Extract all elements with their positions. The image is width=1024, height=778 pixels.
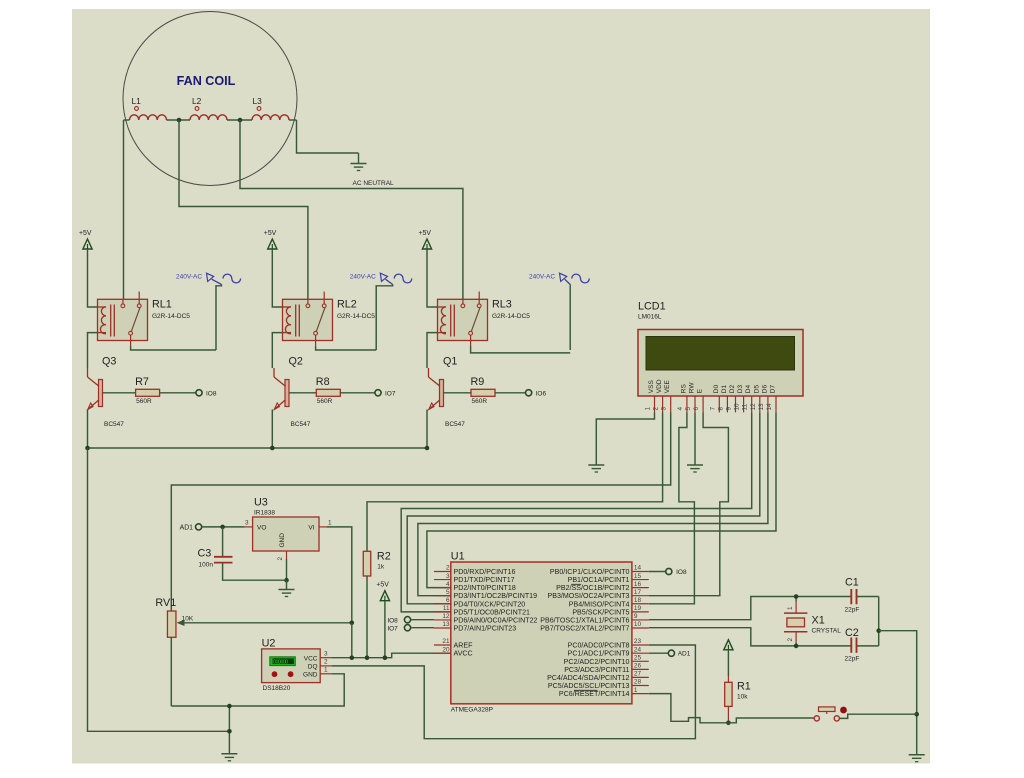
wire LCD D7 to PD2 — [427, 412, 776, 587]
svg-text:4: 4 — [677, 407, 684, 411]
svg-text:L2: L2 — [192, 96, 202, 106]
svg-text:240V-AC: 240V-AC — [529, 274, 555, 281]
svg-text:22pF: 22pF — [845, 607, 860, 614]
junction xtal2 node — [794, 644, 799, 649]
svg-text:1: 1 — [634, 687, 638, 694]
svg-text:560R: 560R — [317, 398, 333, 405]
svg-text:21: 21 — [442, 638, 450, 645]
R1 body — [725, 682, 732, 706]
svg-text:GND: GND — [279, 533, 286, 548]
svg-text:2: 2 — [446, 565, 450, 572]
wire LCD VEE line to RV1 — [171, 412, 670, 611]
svg-text:E: E — [697, 388, 704, 393]
svg-text:2: 2 — [324, 659, 328, 666]
svg-text:PB7/TOSC2/XTAL2/PCINT7: PB7/TOSC2/XTAL2/PCINT7 — [540, 624, 629, 632]
transistor Q1 BC547 — [440, 380, 444, 407]
svg-text:PC4/ADC4/SDA/PCINT12: PC4/ADC4/SDA/PCINT12 — [547, 674, 629, 682]
svg-text:20: 20 — [442, 646, 450, 653]
svg-text:BC547: BC547 — [291, 421, 311, 428]
svg-text:LM016L: LM016L — [638, 314, 662, 321]
ground bottom-right — [909, 754, 925, 756]
wire emitter bus — [88, 447, 429, 449]
wire LCD VSS to ground — [596, 412, 654, 465]
svg-text:PC6/RESET/PCINT14: PC6/RESET/PCINT14 — [559, 690, 630, 698]
svg-text:000000: 000000 — [273, 659, 288, 665]
relay RL2 core — [295, 305, 297, 337]
wire L3 to AC neutral — [297, 120, 359, 153]
fan coil circle — [123, 12, 297, 186]
svg-text:L3: L3 — [253, 96, 263, 106]
svg-text:D2: D2 — [729, 385, 736, 394]
junction bus +5V — [383, 655, 388, 660]
svg-text:IO8: IO8 — [387, 618, 398, 625]
svg-text:7: 7 — [709, 407, 716, 411]
svg-text:R8: R8 — [316, 376, 330, 388]
svg-text:8: 8 — [717, 407, 724, 411]
wire Q3 relay NO contact to 240V lead — [131, 346, 216, 350]
svg-text:AC NEUTRAL: AC NEUTRAL — [353, 180, 395, 187]
svg-text:3: 3 — [446, 573, 450, 580]
svg-text:16: 16 — [634, 581, 642, 588]
svg-text:PC2/ADC2/PCINT10: PC2/ADC2/PCINT10 — [564, 658, 630, 666]
svg-text:19: 19 — [634, 605, 642, 612]
svg-text:U2: U2 — [262, 638, 276, 650]
svg-text:RL2: RL2 — [337, 299, 357, 311]
svg-text:11: 11 — [742, 403, 749, 410]
junction rail/stem — [227, 729, 232, 734]
wire VI node down to +5V bus — [351, 623, 353, 658]
svg-text:PB5/SCK/PCINT5: PB5/SCK/PCINT5 — [572, 608, 629, 616]
svg-text:G2R-14-DC5: G2R-14-DC5 — [152, 313, 190, 320]
wire R1 top — [727, 650, 729, 676]
overline SS (PB2) — [572, 583, 582, 585]
svg-text:3: 3 — [661, 407, 668, 411]
svg-text:10k: 10k — [737, 694, 748, 701]
svg-text:15: 15 — [634, 573, 642, 580]
LCD1 LM016L body — [638, 330, 803, 397]
ground LCD RW — [687, 464, 703, 466]
wire L3 node to RL3 — [240, 120, 463, 299]
svg-text:11: 11 — [443, 605, 450, 612]
wire U3 VI down — [327, 527, 352, 623]
relay RL1 box — [98, 299, 148, 340]
svg-text:ATMEGA328P: ATMEGA328P — [451, 707, 493, 714]
svg-text:9: 9 — [634, 613, 638, 620]
svg-text:RS: RS — [680, 384, 687, 394]
svg-text:BC547: BC547 — [104, 421, 124, 428]
wire L1 left lead — [124, 119, 130, 121]
wire LCD RS to PB4 — [649, 412, 695, 603]
svg-text:PB6/TOSC1/XTAL1/PCINT6: PB6/TOSC1/XTAL1/PCINT6 — [540, 616, 629, 624]
svg-text:PC5/ADC5/SCL/PCINT13: PC5/ADC5/SCL/PCINT13 — [548, 682, 630, 690]
junction Q2 emitter — [270, 446, 275, 451]
svg-text:U1: U1 — [451, 551, 465, 563]
svg-text:D6: D6 — [761, 385, 768, 394]
wire left ground rail — [88, 448, 230, 731]
junction C3 tap — [220, 525, 225, 530]
+5V Q1 section — [422, 239, 431, 249]
inductor L2 — [190, 115, 227, 120]
svg-text:D5: D5 — [753, 385, 760, 394]
wire LCD E to PB3 — [649, 412, 729, 595]
svg-text:5: 5 — [685, 407, 692, 411]
svg-text:D7: D7 — [770, 385, 777, 394]
svg-text:AVCC: AVCC — [454, 650, 473, 658]
relay RL2 contacts — [306, 304, 310, 308]
svg-text:VDD: VDD — [656, 379, 663, 393]
svg-text:+5V: +5V — [419, 230, 432, 237]
relay RL2 box — [283, 299, 333, 340]
ground LCD VSS — [588, 464, 604, 466]
junction bus R2 — [365, 655, 370, 660]
svg-text:IR1838: IR1838 — [254, 510, 275, 517]
svg-text:L1: L1 — [132, 96, 142, 106]
svg-text:Q1: Q1 — [443, 356, 457, 368]
wire PB7 to crystal bottom — [649, 628, 851, 646]
svg-text:IO8: IO8 — [676, 569, 687, 576]
relay RL1 contacts — [121, 304, 125, 308]
wire Q1 relay coil to collector — [427, 333, 438, 368]
svg-text:PB0/ICP1/CLKO/PCINT0: PB0/ICP1/CLKO/PCINT0 — [550, 568, 630, 576]
relay RL3 coil — [440, 307, 446, 334]
junction U3 gnd / C3 — [284, 578, 289, 583]
wire U2 VCC bus to AVCC — [332, 653, 451, 658]
junction c-right node — [876, 628, 881, 633]
wire Q3 emitter to bus — [87, 410, 89, 449]
wire button to right rail — [839, 714, 916, 718]
wire R2 bottom to bus — [366, 576, 368, 658]
junction button node — [914, 712, 919, 717]
node AD1 (PC1) — [649, 652, 669, 654]
junction wiper/VI node — [350, 621, 355, 626]
junction L2/L3 node — [238, 118, 243, 123]
svg-text:D1: D1 — [721, 385, 728, 394]
svg-text:D0: D0 — [713, 385, 720, 394]
svg-text:PD4/T0/XCK/PCINT20: PD4/T0/XCK/PCINT20 — [454, 600, 526, 608]
junction bus VI — [350, 655, 355, 660]
svg-text:PB2/SS/OC1B/PCINT2: PB2/SS/OC1B/PCINT2 — [556, 584, 629, 592]
wire C3 bottom to U3 gnd — [223, 563, 287, 581]
RV1 wiper arrow — [183, 622, 352, 624]
ground AC NEUTRAL — [351, 163, 367, 165]
svg-text:CRYSTAL: CRYSTAL — [812, 628, 842, 635]
U2 display — [270, 657, 296, 666]
relay RL3 contacts — [461, 304, 465, 308]
svg-text:13: 13 — [442, 621, 450, 628]
junction gnd bus node — [227, 704, 232, 709]
svg-text:12: 12 — [442, 613, 450, 620]
svg-text:U3: U3 — [254, 497, 268, 509]
svg-text:RW: RW — [689, 382, 696, 394]
junction L1/L2 node — [177, 118, 182, 123]
svg-text:1: 1 — [324, 667, 328, 674]
svg-text:VSS: VSS — [648, 380, 655, 394]
wire ground stem — [228, 706, 230, 754]
+5V Q3 section — [83, 239, 92, 249]
relay RL3 core — [450, 305, 452, 337]
LCD pin stubs and labels — [654, 396, 656, 412]
wire Q2 relay coil to collector — [272, 333, 282, 368]
svg-text:1: 1 — [787, 606, 794, 610]
wire Q3 relay coil to collector — [88, 333, 98, 368]
svg-text:560R: 560R — [136, 398, 152, 405]
wire L3 right lead — [289, 119, 297, 121]
svg-text:RL1: RL1 — [152, 299, 172, 311]
svg-text:VI: VI — [308, 525, 314, 532]
svg-text:IO7: IO7 — [387, 626, 398, 633]
svg-text:6: 6 — [693, 407, 700, 411]
svg-text:14: 14 — [766, 403, 773, 411]
U1 right pins PB0-PB7 — [632, 571, 649, 573]
wire +5V rail to Q2 relay coil — [272, 249, 282, 307]
svg-text:G2R-14-DC5: G2R-14-DC5 — [337, 313, 375, 320]
svg-text:24: 24 — [634, 646, 642, 653]
svg-text:LCD1: LCD1 — [638, 301, 666, 313]
svg-text:2: 2 — [277, 557, 284, 561]
svg-text:18: 18 — [634, 597, 642, 604]
svg-text:PD5/T1/OC0B/PCINT21: PD5/T1/OC0B/PCINT21 — [454, 608, 531, 616]
U1 right pins PC0-PC6 — [632, 644, 649, 646]
wire PB6 to crystal top — [649, 597, 851, 620]
svg-text:AD1: AD1 — [180, 525, 194, 532]
wire U2 GND to RV1 bottom — [171, 674, 344, 706]
R2 body — [363, 551, 371, 576]
+5V near R2 — [380, 591, 389, 601]
relay RL3 box — [438, 299, 488, 340]
node terminal IO7 — [375, 390, 381, 396]
wire +5V stem to bus — [384, 601, 386, 658]
U2 red indicator dots — [272, 671, 278, 677]
wire PC6 reset to button — [649, 694, 814, 723]
svg-text:RL3: RL3 — [492, 299, 512, 311]
svg-text:VEE: VEE — [664, 380, 671, 394]
node IO8 (PB0) — [649, 571, 666, 573]
svg-text:23: 23 — [634, 638, 642, 645]
svg-text:1: 1 — [328, 520, 332, 527]
svg-text:Q2: Q2 — [289, 356, 303, 368]
junction R1/reset — [726, 721, 731, 726]
svg-text:10: 10 — [734, 403, 741, 411]
U3 IR1838 body — [253, 517, 319, 551]
svg-text:R2: R2 — [377, 551, 391, 563]
svg-text:560R: 560R — [472, 398, 488, 405]
svg-text:PD1/TXD/PCINT17: PD1/TXD/PCINT17 — [454, 576, 515, 584]
svg-text:IO7: IO7 — [385, 390, 396, 397]
wire Q3 base wire — [103, 392, 136, 394]
svg-text:Q3: Q3 — [102, 356, 116, 368]
svg-text:26: 26 — [634, 663, 642, 670]
wire RV1 bottom — [170, 637, 172, 706]
svg-text:IO8: IO8 — [206, 390, 217, 397]
wire L1 to RL1 — [123, 120, 125, 299]
svg-text:14: 14 — [634, 565, 642, 572]
wire U2 DQ to PC0 — [332, 645, 695, 739]
svg-text:X1: X1 — [812, 615, 825, 627]
wire Q2 relay NO contact to 240V lead — [316, 346, 377, 350]
svg-text:10: 10 — [634, 621, 642, 628]
wire L2 node to RL2 — [179, 120, 308, 299]
resistor R9 560R — [471, 389, 495, 396]
U1 left pins PD0-PD7 — [434, 571, 451, 573]
svg-text:C3: C3 — [198, 548, 212, 560]
svg-text:RV1: RV1 — [155, 597, 176, 609]
button red dot — [840, 707, 847, 714]
wire LCD D5 to PD4 — [407, 412, 760, 603]
LCD screen — [646, 337, 795, 371]
svg-text:PC3/ADC3/PCINT11: PC3/ADC3/PCINT11 — [564, 666, 629, 674]
svg-text:+5V: +5V — [376, 582, 389, 589]
svg-text:240V-AC: 240V-AC — [350, 274, 376, 281]
svg-text:R1: R1 — [737, 681, 751, 693]
svg-text:25: 25 — [634, 655, 642, 662]
svg-text:C1: C1 — [845, 577, 859, 589]
svg-text:22pF: 22pF — [845, 656, 860, 663]
svg-text:VCC: VCC — [304, 655, 318, 662]
U2 pin stubs — [320, 657, 332, 659]
svg-text:DS18B20: DS18B20 — [263, 685, 291, 692]
svg-text:17: 17 — [634, 589, 642, 596]
junction bus/rail — [85, 446, 90, 451]
wire LCD VDD line to R2 — [367, 412, 663, 551]
svg-text:D4: D4 — [745, 385, 752, 394]
svg-text:100n: 100n — [199, 562, 214, 569]
svg-text:FAN COIL: FAN COIL — [177, 74, 236, 88]
svg-text:PD7/AIN1/PCINT23: PD7/AIN1/PCINT23 — [454, 624, 517, 632]
overline RESET (PC6) — [574, 689, 598, 691]
svg-text:G2R-14-DC5: G2R-14-DC5 — [492, 313, 530, 320]
wire right rail — [879, 631, 917, 755]
svg-text:PC0/ADC0/PCINT8: PC0/ADC0/PCINT8 — [568, 642, 630, 650]
svg-text:4: 4 — [446, 581, 450, 588]
svg-text:2: 2 — [787, 638, 794, 642]
svg-text:1k: 1k — [377, 564, 385, 571]
transistor Q3 BC547 — [99, 380, 103, 407]
node terminal IO6 — [526, 390, 532, 396]
svg-text:PD6/AIN0/OC0A/PCINT22: PD6/AIN0/OC0A/PCINT22 — [454, 616, 538, 624]
RV1 body — [167, 611, 176, 637]
svg-text:6: 6 — [446, 597, 450, 604]
svg-text:C2: C2 — [845, 627, 859, 639]
relay RL1 coil — [100, 307, 106, 334]
inductor L1 — [130, 115, 167, 120]
wire LCD D4 to PD5 — [401, 412, 752, 612]
svg-text:+5V: +5V — [79, 230, 92, 237]
wire crystal right side — [878, 597, 880, 646]
wire Q2 base wire — [289, 392, 316, 394]
resistor R7 560R — [136, 389, 160, 396]
+5V R1 — [724, 640, 733, 650]
svg-text:+5V: +5V — [264, 230, 277, 237]
svg-text:D3: D3 — [737, 385, 744, 394]
svg-text:PD2/INT0/PCINT18: PD2/INT0/PCINT18 — [454, 584, 516, 592]
svg-text:PD0/RXD/PCINT16: PD0/RXD/PCINT16 — [454, 568, 516, 576]
resistor R8 560R — [316, 389, 340, 396]
relay RL2 coil — [285, 307, 291, 334]
wire LCD D6 to PD3 — [418, 412, 768, 595]
svg-text:AD1: AD1 — [678, 651, 691, 658]
junction xtal1 node — [794, 594, 799, 599]
svg-text:3: 3 — [245, 520, 249, 527]
U2 DS18B20 body — [262, 649, 321, 683]
transistor Q2 BC547 — [285, 380, 289, 407]
svg-text:GND: GND — [303, 671, 318, 678]
wire AD1 to U3 VO — [202, 526, 245, 528]
svg-text:BC547: BC547 — [445, 421, 465, 428]
wire +5V rail to Q3 relay coil — [88, 249, 98, 307]
svg-text:PB4/MISO/PCINT4: PB4/MISO/PCINT4 — [569, 600, 630, 608]
svg-text:PD3/INT1/OC2B/PCINT19: PD3/INT1/OC2B/PCINT19 — [454, 592, 538, 600]
svg-text:240V-AC: 240V-AC — [176, 274, 202, 281]
+5V Q2 section — [268, 239, 277, 249]
svg-text:IO6: IO6 — [536, 390, 547, 397]
relay RL1 core — [110, 305, 112, 337]
U3 pin stubs — [245, 526, 253, 528]
push button — [814, 716, 819, 721]
svg-text:13: 13 — [758, 403, 765, 411]
svg-text:PC1/ADC1/PCINT9: PC1/ADC1/PCINT9 — [568, 650, 630, 658]
junction Q1 emitter — [425, 446, 430, 451]
svg-text:DQ: DQ — [308, 664, 318, 671]
ground U3 — [279, 589, 295, 591]
svg-text:1: 1 — [645, 407, 652, 411]
svg-text:12: 12 — [750, 403, 757, 411]
svg-text:VO: VO — [257, 525, 266, 532]
ground bottom-left — [221, 753, 237, 755]
U1 left pins AREF AVCC — [434, 644, 451, 646]
wire L1-L2 link — [167, 119, 191, 121]
svg-text:AREF: AREF — [454, 642, 474, 650]
wire L2-L3 link — [227, 119, 252, 121]
wire Q1 emitter to bus — [426, 410, 428, 449]
svg-text:5: 5 — [446, 589, 450, 596]
svg-text:28: 28 — [634, 679, 642, 686]
wire Q1 relay NO contact to 240V lead — [471, 346, 571, 353]
svg-text:27: 27 — [634, 671, 642, 678]
wire Q1 base wire — [444, 392, 472, 394]
svg-text:PB1/OC1A/PCINT1: PB1/OC1A/PCINT1 — [568, 576, 630, 584]
svg-text:PB3/MOSI/OC2A/PCINT3: PB3/MOSI/OC2A/PCINT3 — [548, 592, 630, 600]
svg-text:3: 3 — [324, 651, 328, 658]
svg-text:R9: R9 — [471, 376, 485, 388]
wire LCD RW to ground — [694, 412, 696, 465]
svg-text:9: 9 — [726, 407, 733, 411]
svg-text:2: 2 — [653, 407, 660, 411]
wire U3 GND down — [286, 559, 288, 580]
svg-text:R7: R7 — [135, 376, 149, 388]
wire Q2 emitter to bus — [271, 410, 273, 449]
wire +5V rail to Q1 relay coil — [427, 249, 438, 307]
node terminal IO8 — [196, 390, 202, 396]
inductor L3 — [252, 115, 289, 120]
